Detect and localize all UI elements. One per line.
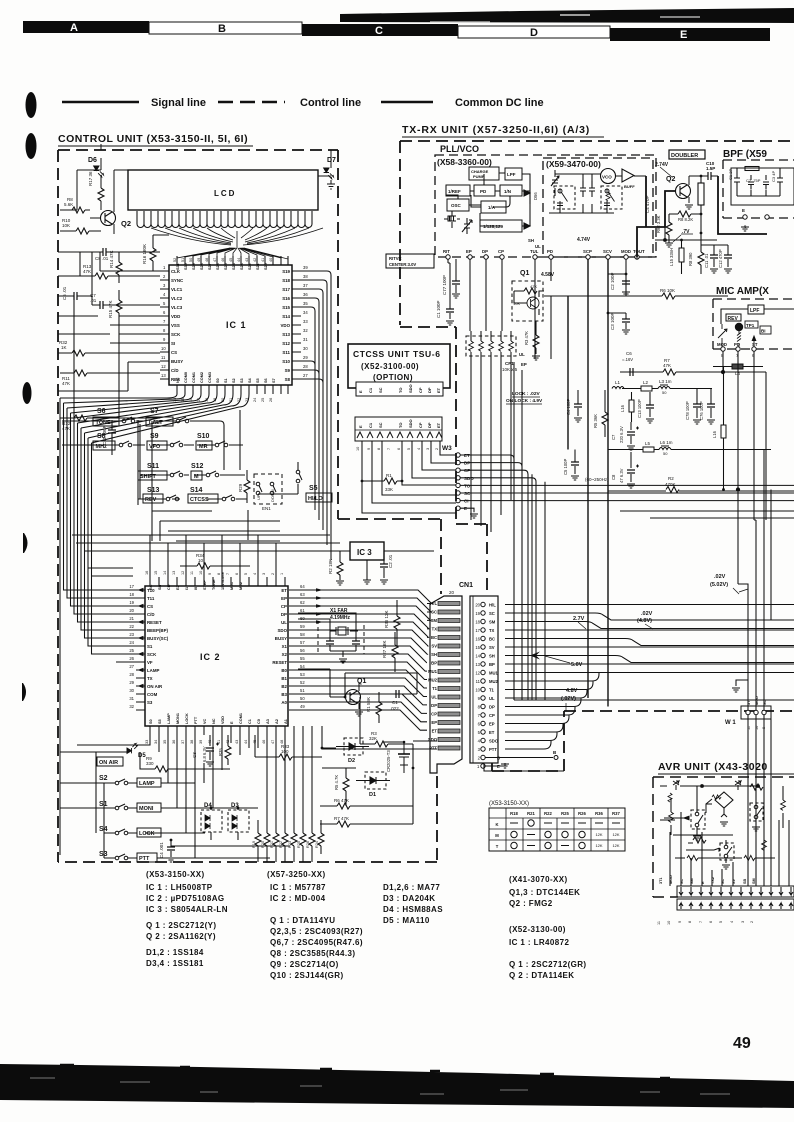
svg-text:SV: SV — [732, 878, 736, 884]
svg-text:COM1: COM1 — [239, 713, 243, 724]
svg-text:SM: SM — [489, 620, 496, 625]
svg-text:12K: 12K — [612, 843, 619, 848]
svg-text:SH: SH — [158, 584, 162, 590]
svg-text:DP: DP — [427, 387, 432, 393]
svg-text:38: 38 — [190, 740, 194, 744]
capacitor C11 100P — [102, 420, 116, 445]
svg-text:ON AIR: ON AIR — [147, 684, 163, 689]
CN1 socket pins and labels — [475, 602, 500, 769]
svg-text:D4 : HSM88AS: D4 : HSM88AS — [383, 905, 443, 914]
crystal below OSC — [444, 211, 460, 228]
svg-text:R1: R1 — [386, 473, 392, 478]
svg-text:10: 10 — [475, 688, 480, 693]
svg-text:R17 36: R17 36 — [88, 171, 93, 186]
svg-text:SH: SH — [528, 238, 534, 243]
1/N block — [500, 185, 522, 196]
svg-text:R36 12K: R36 12K — [384, 610, 389, 628]
resistor R3 32K — [360, 731, 413, 747]
svg-text:VLC1: VLC1 — [171, 287, 183, 292]
svg-text:T11: T11 — [147, 596, 155, 601]
svg-text:(5.02V): (5.02V) — [710, 582, 728, 588]
svg-text:S19: S19 — [282, 269, 290, 274]
MOD PD ST terminals — [717, 336, 758, 358]
CN1 long signal lines to right edge — [505, 605, 794, 750]
svg-text:C4 .001: C4 .001 — [159, 842, 164, 858]
svg-text:SDO: SDO — [428, 737, 438, 742]
svg-text:.02V: .02V — [641, 611, 653, 617]
svg-text:R5 36K: R5 36K — [593, 414, 598, 428]
svg-text:14: 14 — [173, 398, 177, 402]
parts list column X53 — [146, 870, 228, 968]
svg-text:4.58V: 4.58V — [541, 272, 555, 278]
L2 L3 row wire — [622, 388, 712, 390]
svg-text:10: 10 — [667, 921, 671, 925]
svg-text:63: 63 — [300, 592, 305, 597]
svg-text:LCD: LCD — [214, 189, 236, 198]
svg-text:X2: X2 — [282, 652, 288, 657]
svg-text:25: 25 — [261, 398, 265, 402]
svg-text:B0: B0 — [281, 668, 287, 673]
svg-text:(X53-3150-XX): (X53-3150-XX) — [146, 870, 205, 879]
resistor R29 — [238, 470, 250, 503]
resistor R33 100 — [255, 744, 322, 760]
top ruler scale bar segment C — [302, 24, 458, 37]
svg-text:D5 : MA110: D5 : MA110 — [383, 916, 430, 925]
svg-text:L16: L16 — [620, 404, 625, 412]
buffer amp BUFF — [622, 169, 635, 189]
svg-text:S26: S26 — [216, 263, 220, 270]
svg-text:CENTER:3.0V: CENTER:3.0V — [389, 262, 416, 267]
svg-text:S29: S29 — [192, 263, 196, 270]
AVR transistor Q1 — [664, 786, 712, 840]
svg-text:LOCK: LOCK — [185, 713, 189, 724]
svg-text:I1: I1 — [185, 587, 189, 590]
svg-text:CONTROL UNIT (X53-3150-II, 5: CONTROL UNIT (X53-3150-II, 5I, 6I) — [58, 133, 248, 145]
svg-text:1.5P: 1.5P — [706, 166, 715, 171]
VCO oscillator — [601, 169, 616, 202]
.7V label — [673, 229, 693, 242]
svg-text:CP: CP — [498, 249, 504, 254]
svg-text:15: 15 — [475, 645, 480, 650]
switch S3 PTT — [99, 851, 210, 862]
svg-text:IC 2 : µPD75108AG: IC 2 : µPD75108AG — [146, 894, 225, 903]
svg-text:59: 59 — [300, 624, 305, 629]
resistor R27 18K — [382, 632, 398, 672]
bottom scan noise band — [0, 1064, 794, 1108]
svg-text:VDO: VDO — [280, 323, 290, 328]
svg-text:47K: 47K — [663, 363, 671, 368]
legend common DC line — [381, 97, 544, 109]
svg-text:(.02V): (.02V) — [561, 696, 576, 702]
svg-text:2: 2 — [435, 448, 439, 450]
top ruler scale bar segment D — [458, 26, 610, 39]
top ruler scale bar segment A — [23, 21, 149, 34]
svg-text:50: 50 — [663, 451, 668, 456]
svg-text:R16 180K: R16 180K — [142, 244, 147, 264]
svg-text:44: 44 — [237, 258, 241, 262]
svg-text:SM: SM — [431, 618, 438, 623]
trimmer capacitor PLL — [462, 218, 472, 234]
svg-text:SC: SC — [721, 878, 725, 884]
MIC AMP dashed box — [713, 299, 794, 349]
AVR connector strip with arrows — [677, 886, 794, 910]
REV adjust label — [726, 314, 741, 322]
AVR strip pin numbers — [657, 921, 754, 925]
resistor R17 — [88, 171, 104, 210]
1/128,129 block — [480, 220, 522, 232]
svg-text:12: 12 — [475, 671, 480, 676]
svg-text:S13: S13 — [147, 487, 160, 494]
IC2 bottom pin stubs — [150, 726, 285, 735]
BI block micamp — [760, 326, 771, 334]
capacitor C76 100P — [699, 389, 715, 424]
capacitor C2 .01 — [363, 551, 393, 584]
collector load resistor — [698, 183, 704, 205]
svg-text:52: 52 — [173, 258, 177, 262]
inductor L3 1m — [658, 379, 672, 395]
svg-text:I0: I0 — [194, 587, 198, 590]
svg-text:21: 21 — [129, 616, 134, 621]
bundle wires above IC2 — [72, 535, 340, 577]
svg-text:2.74V: 2.74V — [655, 162, 669, 168]
svg-text:TX: TX — [147, 676, 153, 681]
svg-text:46: 46 — [262, 740, 266, 744]
svg-text:E: E — [358, 390, 363, 393]
IC1 bottom pin stubs — [177, 385, 288, 394]
svg-text:220 6.3V: 220 6.3V — [619, 426, 624, 443]
svg-text:C6: C6 — [626, 351, 632, 356]
svg-text:PTT: PTT — [194, 716, 198, 724]
switch S11 SHIFT — [138, 463, 183, 480]
arrow on SH line — [530, 652, 540, 660]
svg-text:R37: R37 — [612, 811, 620, 816]
svg-text:PD: PD — [734, 342, 740, 347]
svg-text:LPF: LPF — [507, 172, 516, 177]
L15 33nH — [669, 239, 684, 274]
svg-text:SV: SV — [489, 645, 495, 650]
svg-text:Signal line: Signal line — [151, 97, 206, 109]
svg-text:24: 24 — [253, 398, 257, 402]
capacitor C4 100P micamp — [566, 390, 582, 422]
svg-text:BP: BP — [489, 662, 495, 667]
resistor R15 47K — [108, 290, 122, 323]
svg-text:H/L: H/L — [489, 603, 496, 608]
C4 470P coupling — [645, 176, 650, 227]
svg-text:A0: A0 — [281, 700, 287, 705]
top ruler scale bar segment B — [149, 22, 302, 35]
svg-text:OSC: OSC — [451, 203, 462, 208]
svg-text:PLL/VCO: PLL/VCO — [440, 144, 479, 154]
wire from box edge to Q2 and LCD rails — [60, 144, 331, 210]
svg-text:26: 26 — [129, 656, 134, 661]
svg-text:BPF (X59: BPF (X59 — [723, 149, 767, 160]
svg-text:LAMP: LAMP — [147, 668, 160, 673]
svg-text:17: 17 — [129, 584, 134, 589]
svg-text:NC: NC — [212, 718, 216, 724]
switch S5 HI/LO — [258, 462, 332, 502]
LCD display — [128, 170, 318, 210]
resistor R6 47K — [320, 798, 413, 809]
svg-text:Q 1 : DTA114YU: Q 1 : DTA114YU — [270, 916, 335, 925]
svg-text:SDO: SDO — [408, 419, 413, 428]
svg-text:15V/SAVE: 15V/SAVE — [221, 572, 225, 590]
CONTROL UNIT title — [58, 133, 253, 146]
CP1 resistor pack 10Kx5 — [466, 331, 518, 532]
svg-text:COM0: COM0 — [184, 372, 188, 383]
svg-text:S27: S27 — [208, 263, 212, 270]
svg-text:13: 13 — [161, 373, 166, 378]
svg-text:S6: S6 — [264, 378, 268, 383]
legend signal line — [62, 97, 206, 109]
resistor R16 180K — [142, 235, 169, 271]
svg-text:CP: CP — [489, 713, 495, 718]
wire fan to IC2 — [60, 410, 280, 855]
battery CR2025-T3 — [384, 741, 410, 773]
svg-text:IC 1: IC 1 — [226, 320, 247, 330]
resistor R34 10 — [180, 553, 250, 569]
svg-text:UL: UL — [281, 620, 287, 625]
svg-text:TX: TX — [432, 627, 438, 632]
svg-text:SH: SH — [431, 652, 437, 657]
svg-text:49: 49 — [300, 704, 305, 709]
CN1 pin1 ground — [485, 763, 509, 768]
svg-text:S0: S0 — [149, 719, 153, 724]
resistor R12 47K — [60, 415, 107, 431]
svg-text:TX-RX UNIT (X57-3250-II,6I): TX-RX UNIT (X57-3250-II,6I) (A/3) — [402, 124, 590, 136]
svg-text:25: 25 — [129, 648, 134, 653]
capacitor C1 100P — [436, 259, 454, 325]
transistor Q2 — [90, 202, 131, 234]
svg-text:ON LOCK : 4.9V: ON LOCK : 4.9V — [506, 398, 543, 404]
svg-text:ON AIR: ON AIR — [99, 760, 118, 766]
svg-text:39: 39 — [303, 265, 308, 270]
svg-text:VSS: VSS — [171, 323, 180, 328]
svg-text:12: 12 — [161, 364, 166, 369]
svg-text:19: 19 — [475, 611, 480, 616]
svg-text:S1: S1 — [147, 644, 153, 649]
OSC block — [447, 199, 469, 211]
AVR middle junction diamond — [702, 786, 758, 826]
svg-text:EP: EP — [281, 596, 287, 601]
diode D1 — [356, 772, 390, 798]
svg-text:EP: EP — [431, 720, 437, 725]
svg-text:.022: .022 — [390, 706, 399, 711]
svg-text:MU2: MU2 — [489, 679, 499, 684]
RITVR CENTER note — [386, 254, 434, 268]
svg-text:DP: DP — [427, 422, 432, 428]
wire bundle IC1 right pins going down — [301, 271, 331, 560]
resistor R92 3.3K — [656, 214, 673, 247]
svg-text:A2: A2 — [275, 719, 279, 724]
svg-text:Q2 : FMG2: Q2 : FMG2 — [509, 899, 553, 908]
LCD pin comb wires — [137, 211, 323, 248]
svg-text:35: 35 — [163, 740, 167, 744]
svg-text:T1: T1 — [489, 688, 495, 693]
svg-text:13: 13 — [475, 662, 480, 667]
AVR UNIT title — [658, 761, 794, 774]
W3 lines going right — [460, 455, 794, 700]
svg-text:56: 56 — [300, 648, 305, 653]
svg-text:LAMP: LAMP — [167, 713, 171, 724]
svg-text:28: 28 — [303, 364, 308, 369]
CN1 plug contact fingers — [438, 602, 460, 751]
svg-text:S3: S3 — [147, 700, 153, 705]
resistor R36 12K — [384, 600, 400, 647]
svg-text:R3 47K: R3 47K — [524, 331, 529, 345]
svg-text:R6 10K: R6 10K — [660, 288, 675, 293]
svg-text:PD: PD — [547, 249, 553, 254]
svg-text:S12: S12 — [282, 341, 290, 346]
svg-text:MU1: MU1 — [428, 669, 438, 674]
svg-text:S2: S2 — [99, 775, 108, 782]
svg-text:L3 1m: L3 1m — [659, 379, 672, 384]
svg-text:X1: X1 — [282, 644, 288, 649]
svg-text:C11 .01: C11 .01 — [704, 253, 709, 268]
svg-text:M: M — [495, 833, 499, 838]
AVR vertical drops to strip — [660, 812, 789, 886]
svg-text:(X59-3470-00): (X59-3470-00) — [546, 159, 601, 169]
svg-text:LOCK : .02V: LOCK : .02V — [512, 391, 541, 397]
BPF E terminals — [741, 160, 769, 231]
svg-text:R7 47K: R7 47K — [334, 816, 349, 821]
LED D5 ON AIR — [97, 744, 146, 767]
svg-text:SC: SC — [378, 422, 383, 428]
IC1 right pin stubs and numbers — [292, 271, 301, 379]
switch S12 M — [191, 463, 219, 480]
svg-text:R2 18K: R2 18K — [328, 559, 333, 574]
svg-text:(X58-3360-00): (X58-3360-00) — [437, 157, 492, 167]
svg-text:EP: EP — [489, 722, 495, 727]
svg-text:33: 33 — [145, 740, 149, 744]
switch S2 LAMP — [99, 775, 195, 787]
svg-text:7: 7 — [699, 921, 703, 923]
lower area interconnect wires — [77, 669, 417, 862]
svg-text:3: 3 — [262, 573, 266, 575]
svg-text:11: 11 — [190, 571, 194, 575]
svg-text:MU2: MU2 — [428, 678, 438, 683]
svg-text:EN1: EN1 — [262, 506, 271, 511]
svg-text:IC 2 : MD-004: IC 2 : MD-004 — [270, 894, 326, 903]
svg-text:S16: S16 — [282, 296, 290, 301]
svg-text:18: 18 — [129, 592, 134, 597]
svg-text:S4: S4 — [99, 826, 108, 833]
svg-text:D6: D6 — [88, 157, 97, 164]
svg-text:SCK: SCK — [147, 652, 157, 657]
svg-text:DP: DP — [431, 703, 437, 708]
svg-text:TUL: TUL — [530, 249, 539, 254]
svg-text:C1 3P: C1 3P — [728, 169, 733, 180]
svg-text:C78 100P: C78 100P — [685, 401, 690, 420]
svg-text:1: 1 — [280, 573, 284, 575]
svg-text:STEP: STEP — [203, 580, 207, 590]
svg-text:BUSY: BUSY — [171, 359, 183, 364]
svg-text:27: 27 — [303, 373, 308, 378]
svg-text:VDD: VDD — [171, 314, 180, 319]
svg-text:L6 1m: L6 1m — [660, 440, 673, 445]
svg-text:29: 29 — [129, 680, 134, 685]
svg-text:47K: 47K — [530, 284, 537, 289]
resistor R8 5.6K — [60, 197, 90, 213]
CN1 socket side body — [470, 596, 498, 763]
svg-text:20: 20 — [449, 590, 455, 595]
svg-text:B2: B2 — [281, 684, 287, 689]
AVR bias resistors — [675, 840, 775, 861]
svg-text:COM1: COM1 — [192, 372, 196, 383]
svg-text:RITVR: RITVR — [389, 256, 402, 261]
svg-text:C1: C1 — [392, 700, 398, 705]
svg-text:L2: L2 — [643, 380, 649, 385]
svg-text:S15: S15 — [282, 305, 290, 310]
svg-text:C: C — [375, 25, 383, 37]
svg-text:H/L: H/L — [430, 601, 437, 606]
svg-text:S3: S3 — [240, 378, 244, 383]
switch S1 MONI — [99, 801, 200, 812]
diode pack D4 — [201, 803, 222, 840]
IC1 left pin stubs and labels — [160, 271, 169, 379]
svg-text:26: 26 — [269, 398, 273, 402]
svg-text:BI: BI — [761, 329, 766, 334]
svg-text:330: 330 — [146, 761, 154, 766]
svg-text:A3: A3 — [266, 719, 270, 724]
svg-text:S5: S5 — [256, 378, 260, 383]
svg-text:R26: R26 — [578, 811, 586, 816]
PLL outer dashed box — [435, 155, 656, 257]
svg-text:6: 6 — [397, 448, 401, 450]
svg-text:Q1: Q1 — [357, 678, 366, 685]
svg-text:27: 27 — [129, 664, 134, 669]
resistor R7 47K — [320, 816, 413, 827]
svg-text:A1: A1 — [284, 719, 288, 724]
svg-text:SCV: SCV — [603, 249, 612, 254]
svg-text:VC: VC — [203, 718, 207, 724]
capacitor C5 .01 — [62, 286, 87, 300]
svg-text:SH: SH — [489, 654, 495, 659]
svg-text:MOD: MOD — [717, 342, 727, 347]
svg-text:11: 11 — [476, 679, 481, 684]
svg-text:W 1: W 1 — [725, 720, 736, 726]
AVR top rail resistors — [660, 781, 763, 886]
svg-text:C8: C8 — [611, 474, 616, 480]
AVR transistor Q3 — [686, 840, 734, 869]
svg-text:S13: S13 — [282, 332, 290, 337]
inductor L5 — [643, 441, 654, 452]
svg-text:R29: R29 — [238, 483, 243, 492]
DOUBLER label — [669, 150, 705, 159]
IC1 top pin stubs — [177, 256, 288, 265]
transistor Q1 — [330, 678, 366, 716]
.02V 5.02V leader — [739, 589, 748, 592]
svg-text:S7: S7 — [150, 408, 159, 415]
svg-text:12: 12 — [181, 571, 185, 575]
svg-text:4.19MHz: 4.19MHz — [330, 615, 351, 621]
svg-text:CS: CS — [171, 350, 177, 355]
svg-text:COM3: COM3 — [208, 372, 212, 383]
resistor R2 18K — [328, 551, 344, 585]
svg-text:S2: S2 — [232, 378, 236, 383]
svg-text:20: 20 — [475, 603, 480, 608]
binding hole mark 1 — [26, 92, 37, 118]
svg-text:ET: ET — [436, 422, 441, 428]
BPF dashed box — [723, 160, 794, 218]
svg-text:BUSY(SC): BUSY(SC) — [147, 636, 169, 641]
svg-text:D: D — [530, 27, 538, 39]
svg-text:10: 10 — [198, 558, 204, 563]
voltage label 4.8V (.02V) — [561, 688, 578, 711]
parts list column X57 — [267, 870, 363, 980]
svg-text:E: E — [358, 425, 363, 428]
svg-text:5: 5 — [719, 921, 723, 923]
svg-text:CP: CP — [418, 422, 423, 428]
